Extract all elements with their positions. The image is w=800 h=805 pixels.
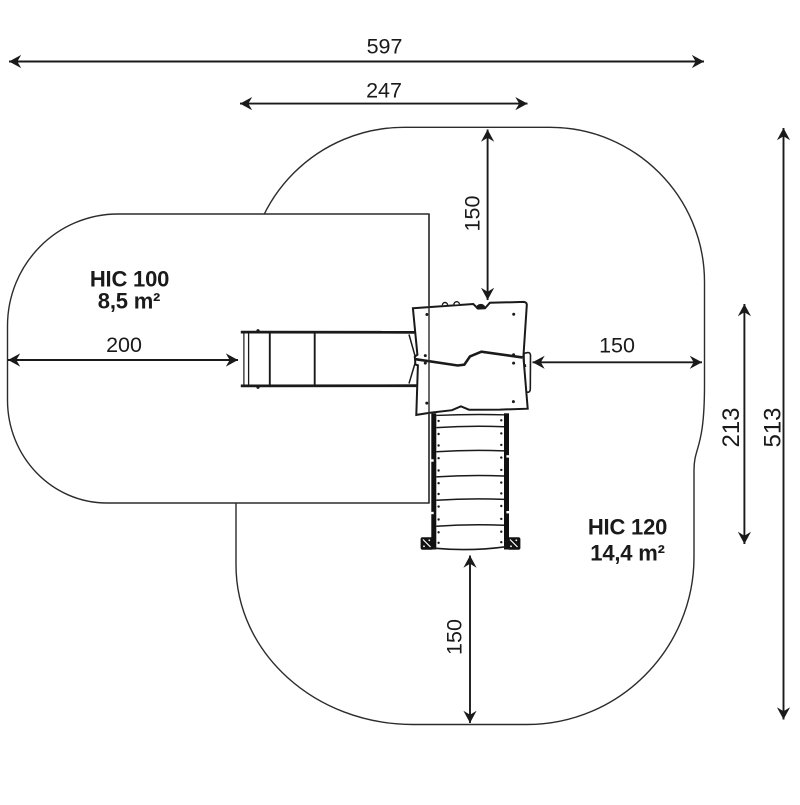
platform screw dots (424, 313, 515, 405)
svg-text:213: 213 (718, 407, 745, 447)
slide top rail (241, 331, 417, 334)
svg-text:150: 150 (461, 196, 485, 232)
slide end cap line 1 (243, 331, 245, 387)
svg-text:150: 150 (443, 619, 467, 655)
ladder bottom edge (434, 547, 506, 550)
dimension 150 right arrow (533, 361, 703, 363)
ladder left rail (431, 413, 436, 549)
svg-text:150: 150 (599, 334, 635, 358)
safety zone HIC 120 outline (236, 127, 705, 724)
ladder rung divider 3 (436, 475, 504, 476)
ladder rung divider 2 (436, 450, 504, 451)
dimension 247 arrow (240, 103, 528, 105)
ladder rail nick right 2 (506, 511, 509, 513)
platform deck outline (413, 302, 528, 415)
dimension 513 arrow (783, 128, 785, 720)
ladder screw dots (437, 419, 502, 544)
ladder rung divider 4 (436, 499, 504, 500)
platform center bump (filled) (476, 304, 486, 309)
dimension 150 top arrow (487, 130, 489, 301)
ladder rail nick left 1 (431, 459, 434, 461)
dimension 150 bottom arrow (469, 556, 471, 724)
platform middle zigzag joint (416, 352, 523, 366)
ladder rail nick right 1 (506, 455, 509, 457)
slide divider 2 (314, 333, 316, 385)
ladder plank top edge (436, 414, 504, 417)
svg-text:247: 247 (366, 79, 402, 103)
slide divider 1 (269, 333, 271, 385)
platform right tab (524, 353, 531, 393)
slide funnel top edge (409, 335, 416, 360)
slide bolt top (256, 329, 259, 332)
dimension 597 arrow (9, 61, 704, 63)
ladder foot left (421, 537, 434, 549)
slide funnel bottom edge (409, 360, 416, 384)
svg-text:200: 200 (106, 333, 142, 357)
platform tab tick (524, 364, 526, 367)
svg-text:14,4 m²: 14,4 m² (590, 540, 664, 565)
HIC100 zone right edge over platform (428, 214, 430, 503)
ladder rail nick left 2 (431, 512, 434, 514)
dimension 200 arrow (8, 359, 238, 361)
ladder right rail (504, 413, 509, 549)
svg-text:597: 597 (367, 34, 403, 58)
svg-text:HIC 120: HIC 120 (588, 515, 667, 540)
ladder foot right (508, 537, 521, 549)
slide bottom rail (241, 384, 417, 387)
slide bolt bottom (256, 386, 259, 389)
safety zone HIC 100 outline (8, 214, 430, 503)
ladder rung divider 5 (436, 525, 504, 526)
dimension 213 arrow (743, 304, 745, 544)
svg-text:8,5 m²: 8,5 m² (98, 289, 160, 314)
ladder rung divider 1 (436, 426, 504, 427)
slide end cap line 2 (248, 332, 250, 387)
platform hinge bump 2 (454, 302, 459, 305)
platform hinge bump 1 (442, 302, 447, 305)
svg-text:513: 513 (759, 407, 786, 447)
